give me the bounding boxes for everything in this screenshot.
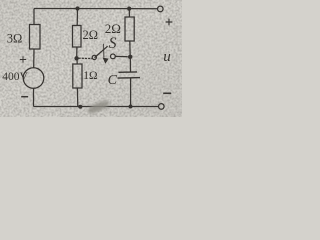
- resistor R1 3ohm: [30, 25, 41, 50]
- resistor R2 2ohm (middle): [73, 26, 82, 48]
- wire: 2ohm right bottom to node: [129, 41, 131, 57]
- scan artifact: faint line above top wire: [53, 2, 152, 5]
- terminal: top right open circle: [158, 6, 164, 12]
- wire: left branch top (source+3ohm riser): [33, 9, 35, 25]
- svg-text:2Ω: 2Ω: [105, 21, 121, 36]
- svg-text:u: u: [163, 49, 171, 65]
- paper background: [0, 0, 182, 117]
- junction node: top of middle branch: [75, 6, 79, 10]
- voltage source 400V circle: [23, 68, 44, 89]
- wire: middle branch riser: [76, 9, 78, 26]
- wire: between 3ohm and source: [33, 49, 35, 68]
- switch S right contact circle: [111, 54, 116, 59]
- terminal: bottom right open circle: [159, 104, 165, 110]
- polarity plus of output u: [166, 19, 173, 26]
- capacitor C bottom plate: [118, 77, 141, 80]
- wire: node to capacitor top plate: [129, 57, 131, 72]
- resistor R4 2ohm (right): [125, 17, 134, 41]
- scan artifact: small dash top-left: [9, 2, 14, 3]
- svg-text:3Ω: 3Ω: [7, 32, 23, 46]
- wire: source bottom to bottom bus: [33, 88, 35, 106]
- junction node: right node (switch/cap/2ohm): [128, 55, 132, 59]
- svg-text:400V: 400V: [2, 71, 28, 83]
- wire: middle node to switch: [79, 57, 93, 59]
- wire: top horizontal bus: [34, 8, 158, 10]
- polarity plus of source: [20, 56, 26, 62]
- switch S blade: [95, 46, 108, 57]
- wire: switch to right node: [115, 55, 129, 57]
- junction node: bottom of 1ohm branch: [78, 105, 82, 109]
- junction node: middle node between 2ohm and 1ohm: [74, 56, 78, 60]
- switch S left contact circle: [92, 55, 96, 59]
- scan artifact: right edge faint mark: [176, 25, 178, 45]
- scan artifact: smudge near bottom middle: [86, 98, 110, 115]
- svg-text:S: S: [109, 35, 117, 52]
- wire: middle node down to 1ohm: [76, 58, 78, 64]
- svg-text:1Ω: 1Ω: [83, 70, 97, 82]
- svg-text:C: C: [108, 73, 118, 88]
- svg-text:2Ω: 2Ω: [83, 28, 99, 42]
- switch S actuate arrow line: [103, 44, 105, 58]
- polarity minus of source: [21, 96, 28, 98]
- polarity minus of output u: [163, 92, 171, 94]
- resistor R3 1ohm: [73, 64, 82, 88]
- wire: 1ohm bottom to bottom bus: [76, 88, 78, 107]
- junction node: top of right branch: [127, 7, 131, 11]
- wire: capacitor bottom to bottom bus: [130, 78, 132, 107]
- wire: 2ohm bottom to middle node: [76, 47, 78, 58]
- switch S arrowhead: [103, 58, 109, 64]
- wire: bottom horizontal bus: [34, 106, 159, 108]
- junction node: bottom of capacitor branch: [129, 105, 133, 109]
- wire: right branch riser: [128, 9, 130, 17]
- capacitor C top plate: [119, 71, 138, 73]
